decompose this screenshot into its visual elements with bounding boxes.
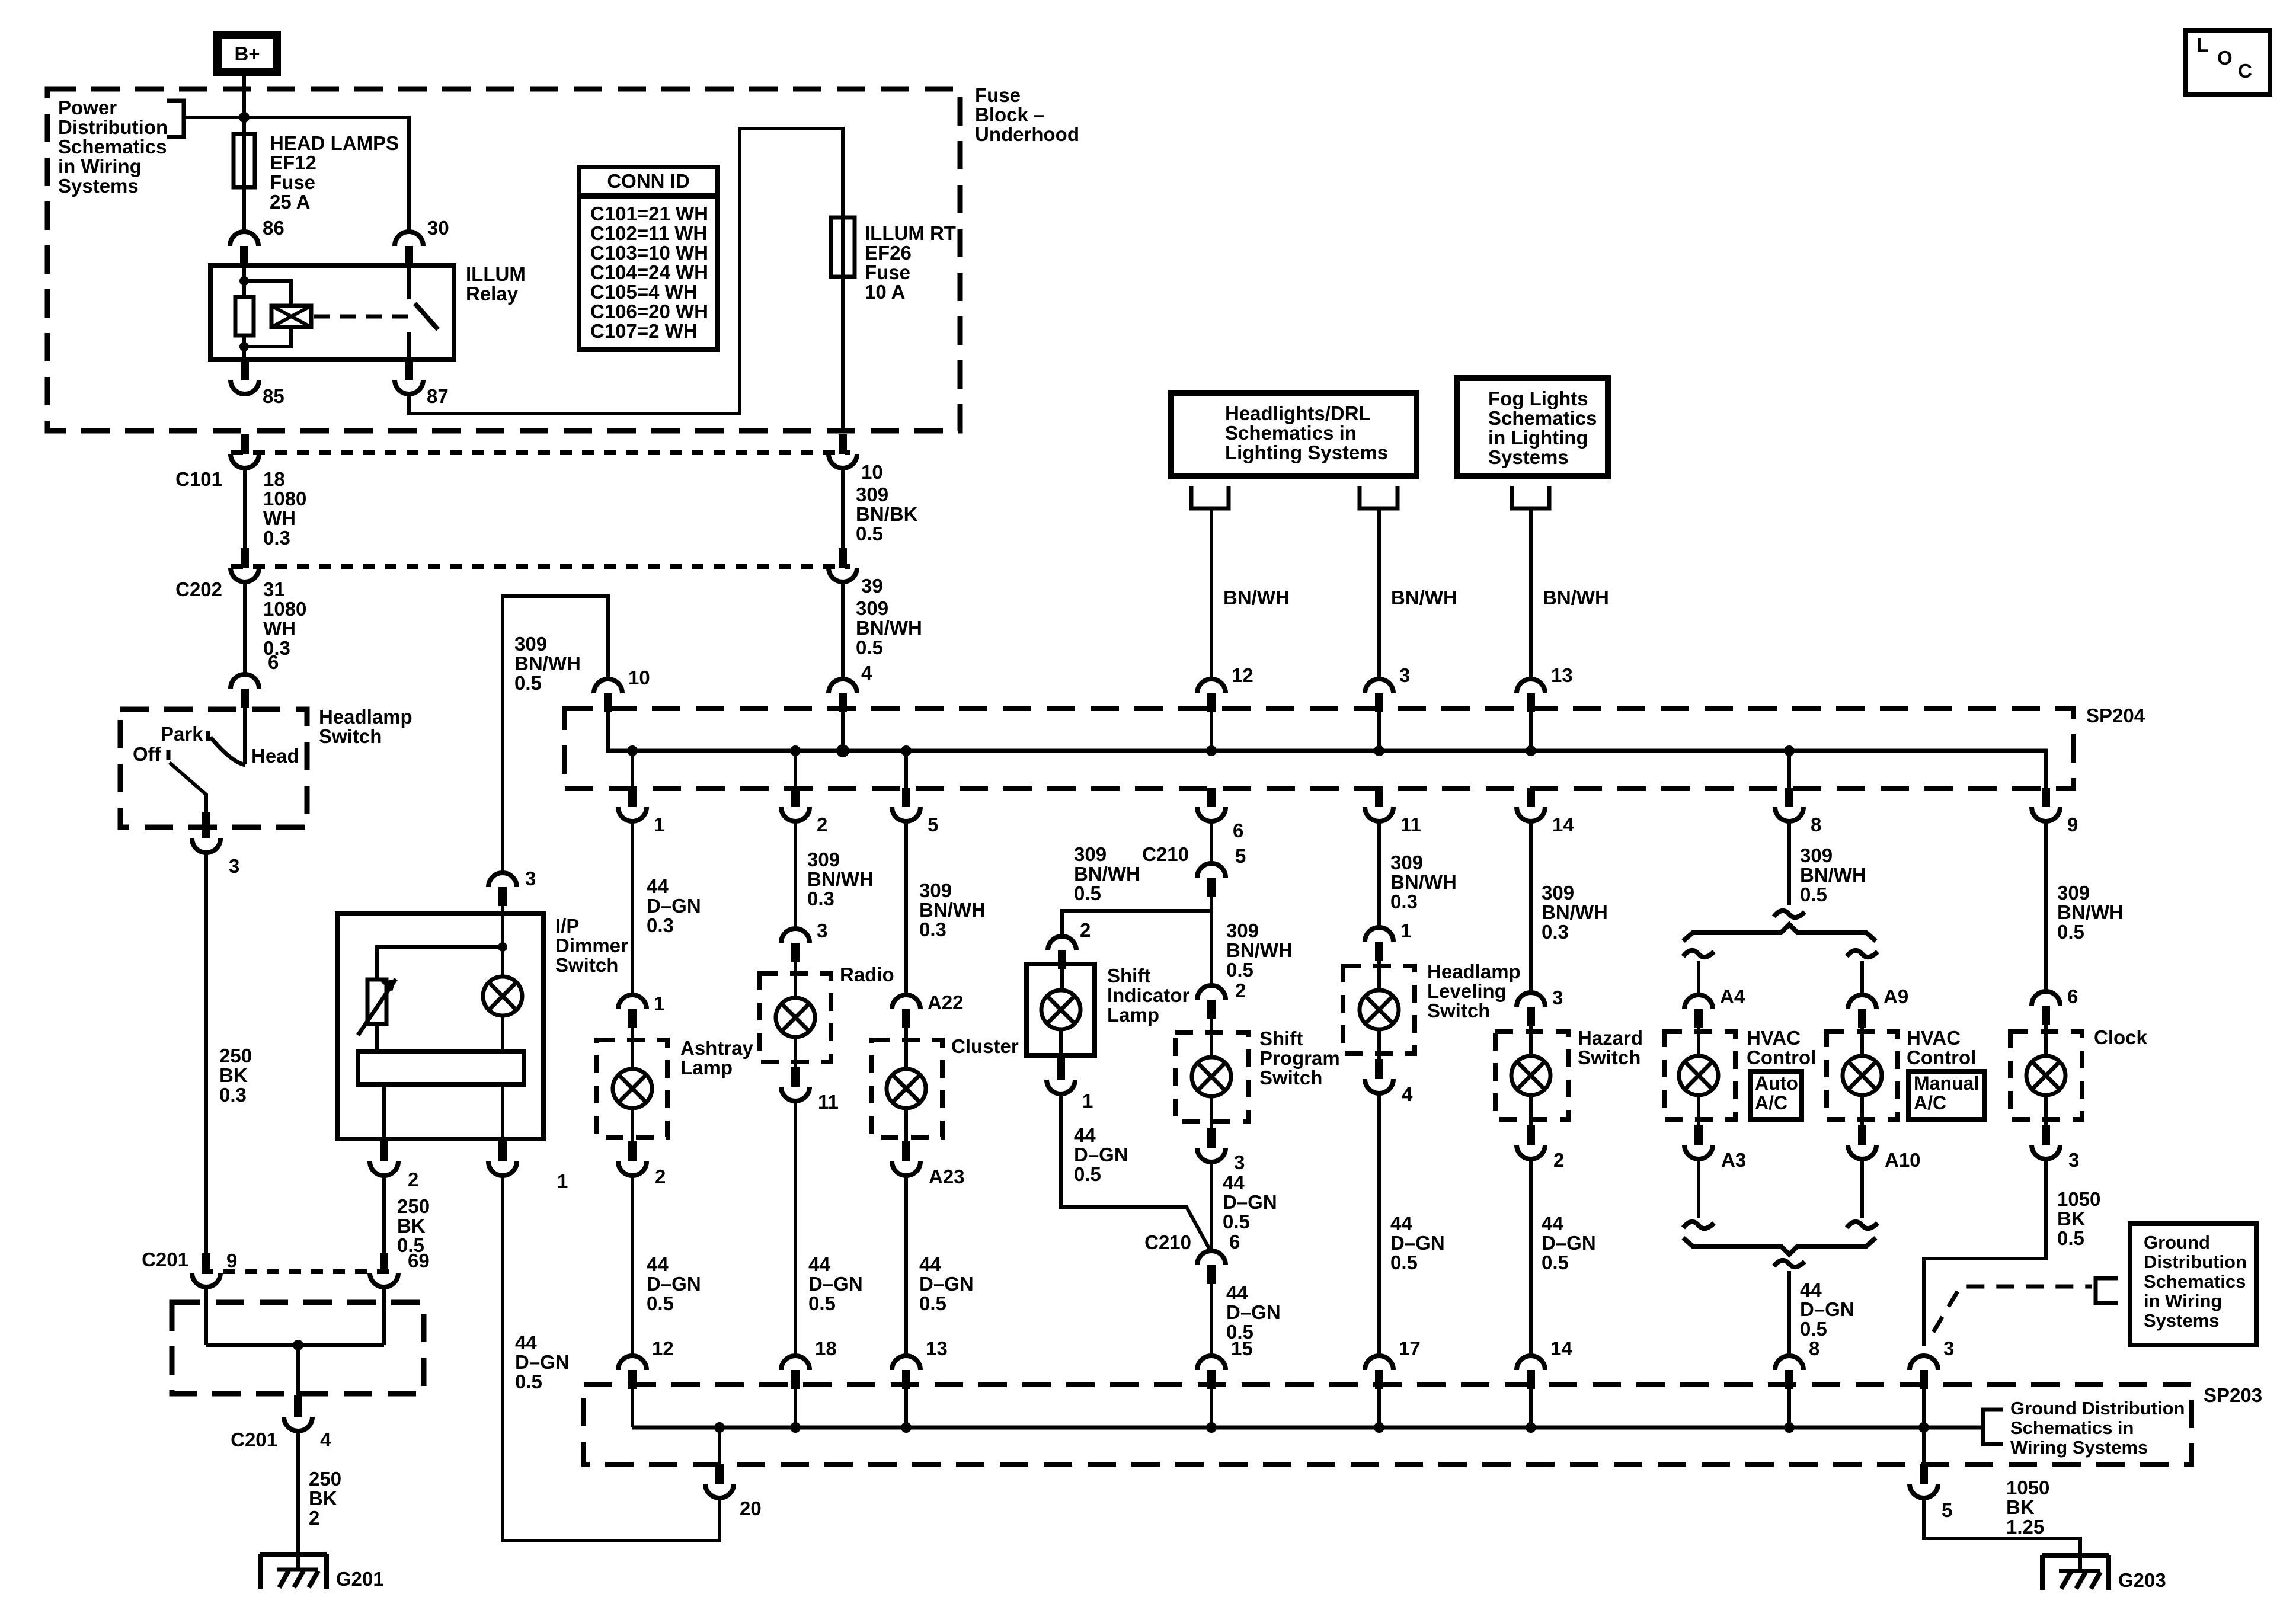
svg-text:C210: C210: [1142, 843, 1189, 865]
svg-text:BN/WH: BN/WH: [2057, 901, 2124, 923]
wire SP204-2 to radio: [794, 821, 797, 929]
svg-text:14: 14: [1552, 814, 1574, 836]
wire SP204 exits internal: [631, 751, 634, 790]
svg-text:G201: G201: [336, 1568, 384, 1590]
connector cluster pin A22: [892, 995, 920, 1009]
svg-text:0.5: 0.5: [919, 1292, 946, 1314]
node SP204 bus: [1374, 745, 1384, 756]
wire SP204 pin12 internal: [1210, 711, 1213, 751]
connector line C101 dotted: [231, 450, 850, 455]
node B+ junction: [239, 112, 250, 123]
svg-text:D–GN: D–GN: [1390, 1232, 1445, 1254]
connector SP204 pin 1: [628, 789, 637, 806]
node SP203 bus: [1526, 1422, 1536, 1433]
svg-text:D–GN: D–GN: [1800, 1298, 1854, 1320]
svg-text:2: 2: [1553, 1149, 1564, 1171]
svg-text:309: 309: [2057, 882, 2090, 904]
svg-text:Power: Power: [58, 97, 117, 119]
svg-text:6: 6: [1229, 1231, 1240, 1253]
svg-text:4: 4: [320, 1429, 331, 1451]
connector radio pin 11: [791, 1067, 800, 1085]
svg-text:309: 309: [1226, 920, 1259, 942]
svg-text:Headlamp: Headlamp: [319, 706, 412, 728]
svg-text:BN/WH: BN/WH: [1543, 587, 1609, 609]
svg-text:G203: G203: [2118, 1569, 2166, 1591]
svg-text:L: L: [2196, 34, 2208, 56]
box Headlights/DRL Schematics: [1171, 393, 1416, 476]
connector SP203 pin 12: [618, 1356, 647, 1370]
wire dimmer internal feed: [501, 906, 504, 977]
svg-text:44: 44: [808, 1253, 830, 1275]
wire C201-4 to ground: [296, 1431, 300, 1554]
svg-text:BN/BK: BN/BK: [856, 503, 918, 525]
svg-text:18: 18: [263, 468, 285, 490]
fuse EF26 ILLUM RT 10A: [831, 217, 855, 277]
svg-text:Auto: Auto: [1755, 1073, 1798, 1094]
wire C101-10 to C202-39: [841, 468, 845, 550]
svg-text:BK: BK: [2057, 1208, 2086, 1230]
connector SP203 pin 20: [715, 1464, 724, 1482]
splice pack SP203 dashed box: [584, 1385, 2192, 1464]
svg-text:HVAC: HVAC: [1907, 1027, 1961, 1049]
svg-text:Leveling: Leveling: [1427, 980, 1507, 1002]
headlamp leveling switch dashed box: [1343, 966, 1415, 1054]
wire break hook HVAC merge: [1774, 1260, 1805, 1267]
box Ground Distribution Schematics: [2130, 1224, 2256, 1345]
connector HVAC pin A9: [1848, 995, 1876, 1009]
connector leveling pin 1: [1365, 927, 1393, 942]
wire pin 5 branch internal: [1922, 1427, 1926, 1464]
connector SP204 pin 4: [829, 679, 857, 693]
wire A3 down: [1697, 1159, 1700, 1218]
svg-text:44: 44: [919, 1253, 941, 1275]
wire headlamp switch to C201-9: [204, 853, 208, 1253]
svg-text:10: 10: [628, 667, 650, 689]
relay coil feed wire: [242, 265, 246, 297]
dimmer wiper bar: [358, 1052, 524, 1084]
svg-text:5: 5: [928, 814, 938, 836]
svg-text:0.3: 0.3: [919, 918, 946, 940]
svg-text:69: 69: [408, 1250, 430, 1272]
connector C210 pin 6: [1197, 1251, 1226, 1265]
svg-text:44: 44: [1074, 1124, 1096, 1146]
cluster dashed box: [872, 1040, 942, 1137]
lamp radio: [776, 998, 815, 1037]
switch blade Off to output: [170, 763, 206, 819]
svg-text:0.5: 0.5: [1800, 884, 1827, 905]
node relay coil bottom: [239, 342, 249, 351]
svg-text:309: 309: [514, 633, 547, 655]
svg-text:Switch: Switch: [555, 954, 618, 976]
svg-text:2: 2: [309, 1507, 319, 1529]
svg-text:1080: 1080: [263, 488, 306, 510]
connector SP204 pin 11: [1375, 789, 1383, 806]
wire branch to shift indicator: [1062, 911, 1211, 936]
conn id table: [579, 167, 718, 350]
contact Off: [167, 750, 171, 760]
svg-text:BK: BK: [397, 1215, 426, 1237]
headlamp switch S1 dashed box: [120, 709, 307, 827]
svg-text:1: 1: [1082, 1090, 1093, 1112]
svg-text:Lamp: Lamp: [1107, 1004, 1159, 1026]
connector hazard pin 3: [1517, 993, 1545, 1007]
wire break hook below A10: [1847, 1222, 1878, 1228]
connector HVAC pin A4: [1684, 995, 1713, 1009]
connector cluster pin A23: [902, 1141, 910, 1160]
svg-text:Head: Head: [251, 745, 299, 767]
connector hazard pin 2: [1527, 1125, 1535, 1143]
svg-text:3: 3: [1234, 1151, 1245, 1173]
wire hook to A9: [1860, 961, 1864, 995]
connector ashtray pin 1: [618, 995, 647, 1009]
svg-text:Switch: Switch: [1259, 1067, 1322, 1089]
svg-text:C101: C101: [175, 468, 222, 490]
wire C202 to headlamp switch: [243, 582, 247, 674]
leader dashed to ground distribution: [1933, 1286, 2092, 1332]
svg-text:Schematics in: Schematics in: [2010, 1417, 2134, 1438]
svg-text:C107=2 WH: C107=2 WH: [590, 320, 698, 342]
wire SP204-1 to ashtray lamp: [631, 821, 634, 995]
node SP203 bus: [1784, 1422, 1795, 1433]
svg-text:C210: C210: [1144, 1231, 1191, 1253]
svg-text:0.5: 0.5: [1800, 1318, 1827, 1340]
connector SP204 pin 14: [1527, 789, 1535, 806]
connector ashtray pin 2: [628, 1141, 637, 1160]
wire rheostat to wiper bar: [375, 1024, 379, 1052]
svg-text:Control: Control: [1907, 1046, 1976, 1068]
svg-text:Ground: Ground: [2144, 1232, 2210, 1253]
svg-text:Distribution: Distribution: [58, 116, 168, 138]
svg-text:O: O: [2217, 47, 2233, 69]
svg-text:Distribution: Distribution: [2144, 1251, 2247, 1272]
svg-text:BK: BK: [219, 1064, 248, 1086]
svg-text:17: 17: [1399, 1337, 1421, 1359]
wire SP204-6 to C210: [1210, 821, 1213, 863]
lamp cluster: [887, 1069, 926, 1108]
svg-text:250: 250: [309, 1468, 341, 1490]
svg-text:BN/WH: BN/WH: [1074, 863, 1140, 885]
svg-text:Schematics: Schematics: [2144, 1271, 2246, 1292]
svg-text:BN/WH: BN/WH: [1391, 587, 1457, 609]
wire SP204 pin4 internal: [841, 711, 845, 751]
svg-text:1: 1: [654, 993, 664, 1014]
svg-text:BK: BK: [2006, 1496, 2035, 1518]
node relay coil top: [239, 276, 249, 286]
svg-text:6: 6: [268, 651, 279, 673]
svg-text:309: 309: [1800, 844, 1833, 866]
fuse block dashed box: [47, 89, 960, 431]
svg-text:BN/WH: BN/WH: [514, 652, 581, 674]
svg-text:0.5: 0.5: [514, 672, 542, 694]
svg-text:BN/WH: BN/WH: [1542, 901, 1608, 923]
svg-text:Switch: Switch: [1578, 1046, 1641, 1068]
node SP203 bus: [1206, 1422, 1217, 1433]
svg-text:2: 2: [1235, 980, 1246, 1001]
connector SP204 pin 3: [1365, 679, 1393, 693]
box Manual A/C: [1908, 1071, 1984, 1119]
rheostat variable resistor: [367, 980, 386, 1024]
svg-text:A4: A4: [1720, 985, 1745, 1007]
svg-text:0.3: 0.3: [647, 914, 674, 936]
splice pack SP204 dashed box: [564, 709, 2074, 789]
svg-text:30: 30: [427, 217, 449, 239]
wire C202-39 to SP204: [841, 582, 845, 679]
svg-text:5: 5: [1235, 845, 1246, 867]
svg-text:86: 86: [263, 217, 284, 239]
wire shift program to C210-6: [1210, 1162, 1213, 1251]
box Fog Lights Schematics: [1457, 378, 1608, 476]
wire splice down: [296, 1345, 300, 1396]
lamp hazard switch: [1511, 1056, 1550, 1095]
svg-text:9: 9: [226, 1250, 237, 1272]
node SP204 bus: [1526, 745, 1536, 756]
connector SP204 pin 9: [2042, 789, 2050, 806]
svg-text:13: 13: [926, 1337, 948, 1359]
svg-text:C: C: [2238, 60, 2252, 82]
connector SP203 pin 13: [892, 1356, 920, 1370]
svg-text:Fuse: Fuse: [270, 171, 315, 193]
wire 309 BN/WH branch to dimmer: [503, 596, 608, 873]
wire SP204-14 to hazard switch: [1529, 821, 1533, 993]
svg-text:Fuse: Fuse: [865, 261, 910, 283]
svg-text:C201: C201: [231, 1429, 277, 1451]
wire dimmer pin2 to C201-69: [382, 1176, 386, 1253]
svg-text:1080: 1080: [263, 598, 306, 620]
bracket SP203 ground distribution: [1983, 1410, 2003, 1444]
bracket headlights output 2: [1360, 486, 1398, 508]
node SP204 bus: [627, 745, 638, 756]
contact Park: [206, 731, 210, 741]
wire junction to relay pin 30 branch: [184, 117, 409, 232]
wire SP204-9 to clock: [2044, 821, 2048, 991]
svg-text:A/C: A/C: [1914, 1092, 1946, 1113]
svg-text:D–GN: D–GN: [1074, 1144, 1128, 1166]
connector HVAC pin A3: [1694, 1125, 1703, 1143]
svg-text:44: 44: [1226, 1282, 1248, 1304]
box Auto A/C: [1750, 1071, 1802, 1119]
connector SP204 pin 13: [1517, 679, 1545, 693]
node SP204 bus: [1206, 745, 1217, 756]
connector radio pin 3: [781, 929, 810, 943]
SP203 bus wire: [632, 1426, 1983, 1430]
wire fuse EF26 to C101: [841, 277, 845, 433]
lamp clock: [2026, 1056, 2065, 1095]
svg-text:Switch: Switch: [319, 725, 382, 747]
connector SP203 pin 18: [781, 1356, 810, 1370]
svg-text:Fog Lights: Fog Lights: [1488, 388, 1588, 409]
wire shift indicator to C210-6: [1061, 1094, 1210, 1250]
svg-text:0.5: 0.5: [2057, 921, 2084, 943]
svg-text:D–GN: D–GN: [647, 1273, 701, 1295]
svg-text:0.5: 0.5: [1226, 959, 1253, 981]
wire C210-5 down: [1210, 897, 1213, 985]
svg-text:Schematics in: Schematics in: [1225, 422, 1357, 444]
svg-text:11: 11: [818, 1091, 839, 1113]
connector SP203 pin 3 clock: [1910, 1356, 1938, 1370]
svg-text:3: 3: [1552, 987, 1563, 1009]
svg-text:Dimmer: Dimmer: [555, 934, 628, 956]
svg-text:Shift: Shift: [1107, 965, 1150, 987]
node SP203 bus: [790, 1422, 801, 1433]
shift indicator lamp box: [1027, 964, 1095, 1055]
resistor relay internal: [235, 297, 254, 335]
svg-text:Systems: Systems: [2144, 1310, 2220, 1331]
wire SP203 entries internal: [794, 1389, 797, 1427]
svg-text:87: 87: [427, 385, 449, 407]
connector SP203 pin 14: [1517, 1356, 1545, 1370]
wire dimmer output 2: [382, 1084, 386, 1139]
wire headlamp switch feed: [243, 708, 247, 764]
svg-text:C106=20 WH: C106=20 WH: [590, 300, 708, 322]
label pointer bracket Power Distribution: [167, 101, 184, 137]
svg-text:3: 3: [817, 920, 827, 942]
wire pin 20 branch internal: [718, 1427, 721, 1464]
svg-text:0.5: 0.5: [1223, 1211, 1250, 1233]
lamp HVAC auto: [1679, 1056, 1718, 1095]
svg-text:309: 309: [1390, 852, 1423, 873]
svg-text:0.3: 0.3: [1542, 921, 1569, 943]
connector clock pin 6: [2032, 991, 2060, 1006]
svg-text:309: 309: [856, 484, 888, 505]
connector SP204 pin 8: [1785, 789, 1793, 806]
wire C201-9 into junction: [204, 1287, 208, 1345]
svg-text:BN/WH: BN/WH: [1390, 871, 1457, 893]
svg-text:250: 250: [397, 1195, 430, 1217]
connector C201 pin 9: [202, 1253, 210, 1270]
wire relay pin 87 internal: [407, 332, 411, 360]
svg-text:0.5: 0.5: [1074, 882, 1101, 904]
HVAC control auto dashed box: [1664, 1032, 1735, 1119]
svg-text:15: 15: [1231, 1337, 1253, 1359]
svg-text:Cluster: Cluster: [951, 1035, 1019, 1057]
wire cluster to SP203: [904, 1176, 908, 1356]
svg-text:1.25: 1.25: [2006, 1516, 2044, 1538]
svg-text:Indicator: Indicator: [1107, 984, 1190, 1006]
connector SP204 pin 5: [902, 789, 910, 806]
bracket headlights output 1: [1191, 486, 1229, 508]
connector leveling pin 4: [1375, 1059, 1383, 1077]
connector SP203 pin 17: [1365, 1356, 1393, 1370]
svg-text:1050: 1050: [2006, 1477, 2049, 1499]
svg-text:44: 44: [1542, 1212, 1563, 1234]
wire dimmer branch to rheostat: [377, 947, 503, 980]
connector pin 30: [395, 232, 423, 246]
connector line C201 dotted: [202, 1269, 392, 1274]
svg-text:WH: WH: [263, 507, 296, 529]
svg-text:in Wiring: in Wiring: [2144, 1291, 2222, 1311]
wire coil branch bottom: [244, 327, 291, 347]
node junction splice: [293, 1340, 303, 1350]
svg-text:25 A: 25 A: [270, 191, 310, 213]
svg-text:D–GN: D–GN: [919, 1273, 974, 1295]
svg-text:in Lighting: in Lighting: [1488, 427, 1588, 449]
wire C101 to C202: [243, 468, 247, 550]
svg-text:309: 309: [1542, 882, 1574, 904]
connector SP204 pin 12: [1197, 679, 1226, 693]
svg-text:5: 5: [1942, 1499, 1952, 1521]
power terminal B+: [218, 35, 277, 72]
svg-text:0.5: 0.5: [856, 523, 883, 545]
svg-text:1: 1: [654, 814, 664, 836]
node SP203 bus: [714, 1422, 725, 1433]
connector SP203 pin 8: [1775, 1356, 1803, 1370]
connector dimmer pin 1: [498, 1139, 507, 1142]
svg-text:D–GN: D–GN: [515, 1351, 570, 1373]
svg-text:C102=11 WH: C102=11 WH: [590, 222, 707, 244]
wire C210-6 to SP203: [1210, 1284, 1213, 1356]
svg-text:EF12: EF12: [270, 152, 316, 174]
wire SP204-8 to HVAC split: [1787, 821, 1791, 905]
svg-text:3: 3: [2068, 1149, 2079, 1171]
svg-text:12: 12: [1232, 664, 1253, 686]
svg-text:309: 309: [1074, 843, 1107, 865]
wire break hook HVAC feed: [1774, 911, 1805, 917]
connector SP204 pin 10: [594, 679, 622, 693]
svg-text:SP203: SP203: [2204, 1384, 2262, 1406]
svg-text:Schematics: Schematics: [58, 136, 167, 158]
svg-text:14: 14: [1550, 1337, 1572, 1359]
svg-text:EF26: EF26: [865, 242, 912, 264]
connector C201 pin 4: [294, 1395, 302, 1415]
svg-text:D–GN: D–GN: [1223, 1191, 1277, 1213]
svg-text:8: 8: [1809, 1337, 1819, 1359]
bracket fog lights output: [1512, 486, 1549, 508]
connector C210 pin 5: [1197, 863, 1226, 878]
wire ashtray to SP203: [631, 1176, 634, 1356]
wire break hook HVAC A4: [1683, 950, 1714, 957]
svg-text:85: 85: [263, 385, 284, 407]
svg-text:D–GN: D–GN: [808, 1273, 863, 1295]
svg-text:ILLUM: ILLUM: [466, 263, 526, 285]
hazard switch dashed box: [1495, 1032, 1568, 1119]
wire break hook below A3: [1683, 1222, 1714, 1228]
connector C202 pin 31: [241, 548, 249, 565]
wire SP204-5 to cluster: [904, 821, 908, 995]
wire pin 87 to ILLUM RT fuse: [409, 129, 843, 414]
wire B+ to junction: [242, 76, 246, 134]
shift program switch dashed box: [1175, 1032, 1249, 1122]
svg-text:3: 3: [525, 868, 536, 889]
relay switch blade: [415, 303, 438, 329]
svg-text:309: 309: [807, 849, 840, 870]
wire A10 down: [1860, 1159, 1864, 1218]
wire radio to SP203: [794, 1101, 797, 1356]
svg-text:0.5: 0.5: [1390, 1251, 1418, 1273]
svg-text:Schematics: Schematics: [1488, 407, 1597, 429]
svg-text:3: 3: [229, 855, 239, 877]
svg-text:C105=4 WH: C105=4 WH: [590, 281, 698, 303]
connector C101 pin 18: [241, 434, 249, 452]
svg-text:309: 309: [919, 879, 952, 901]
svg-text:44: 44: [515, 1331, 537, 1353]
svg-text:39: 39: [861, 575, 883, 597]
svg-text:44: 44: [1390, 1212, 1412, 1234]
svg-text:11: 11: [1400, 814, 1421, 836]
svg-text:A3: A3: [1721, 1149, 1746, 1171]
wire HVAC merge to SP203: [1787, 1271, 1791, 1356]
wire coil branch top: [244, 281, 291, 306]
ashtray lamp dashed box: [597, 1040, 667, 1137]
svg-text:Systems: Systems: [58, 175, 139, 197]
svg-text:Radio: Radio: [840, 964, 894, 985]
connector dimmer pin 3: [488, 873, 517, 887]
svg-text:Block –: Block –: [975, 104, 1044, 126]
svg-text:0.3: 0.3: [807, 888, 834, 910]
connector line C202 dotted: [231, 564, 850, 569]
svg-text:HEAD LAMPS: HEAD LAMPS: [270, 132, 399, 154]
connector shift program pin 2: [1197, 985, 1226, 1000]
legend box LOC: [2186, 31, 2270, 94]
